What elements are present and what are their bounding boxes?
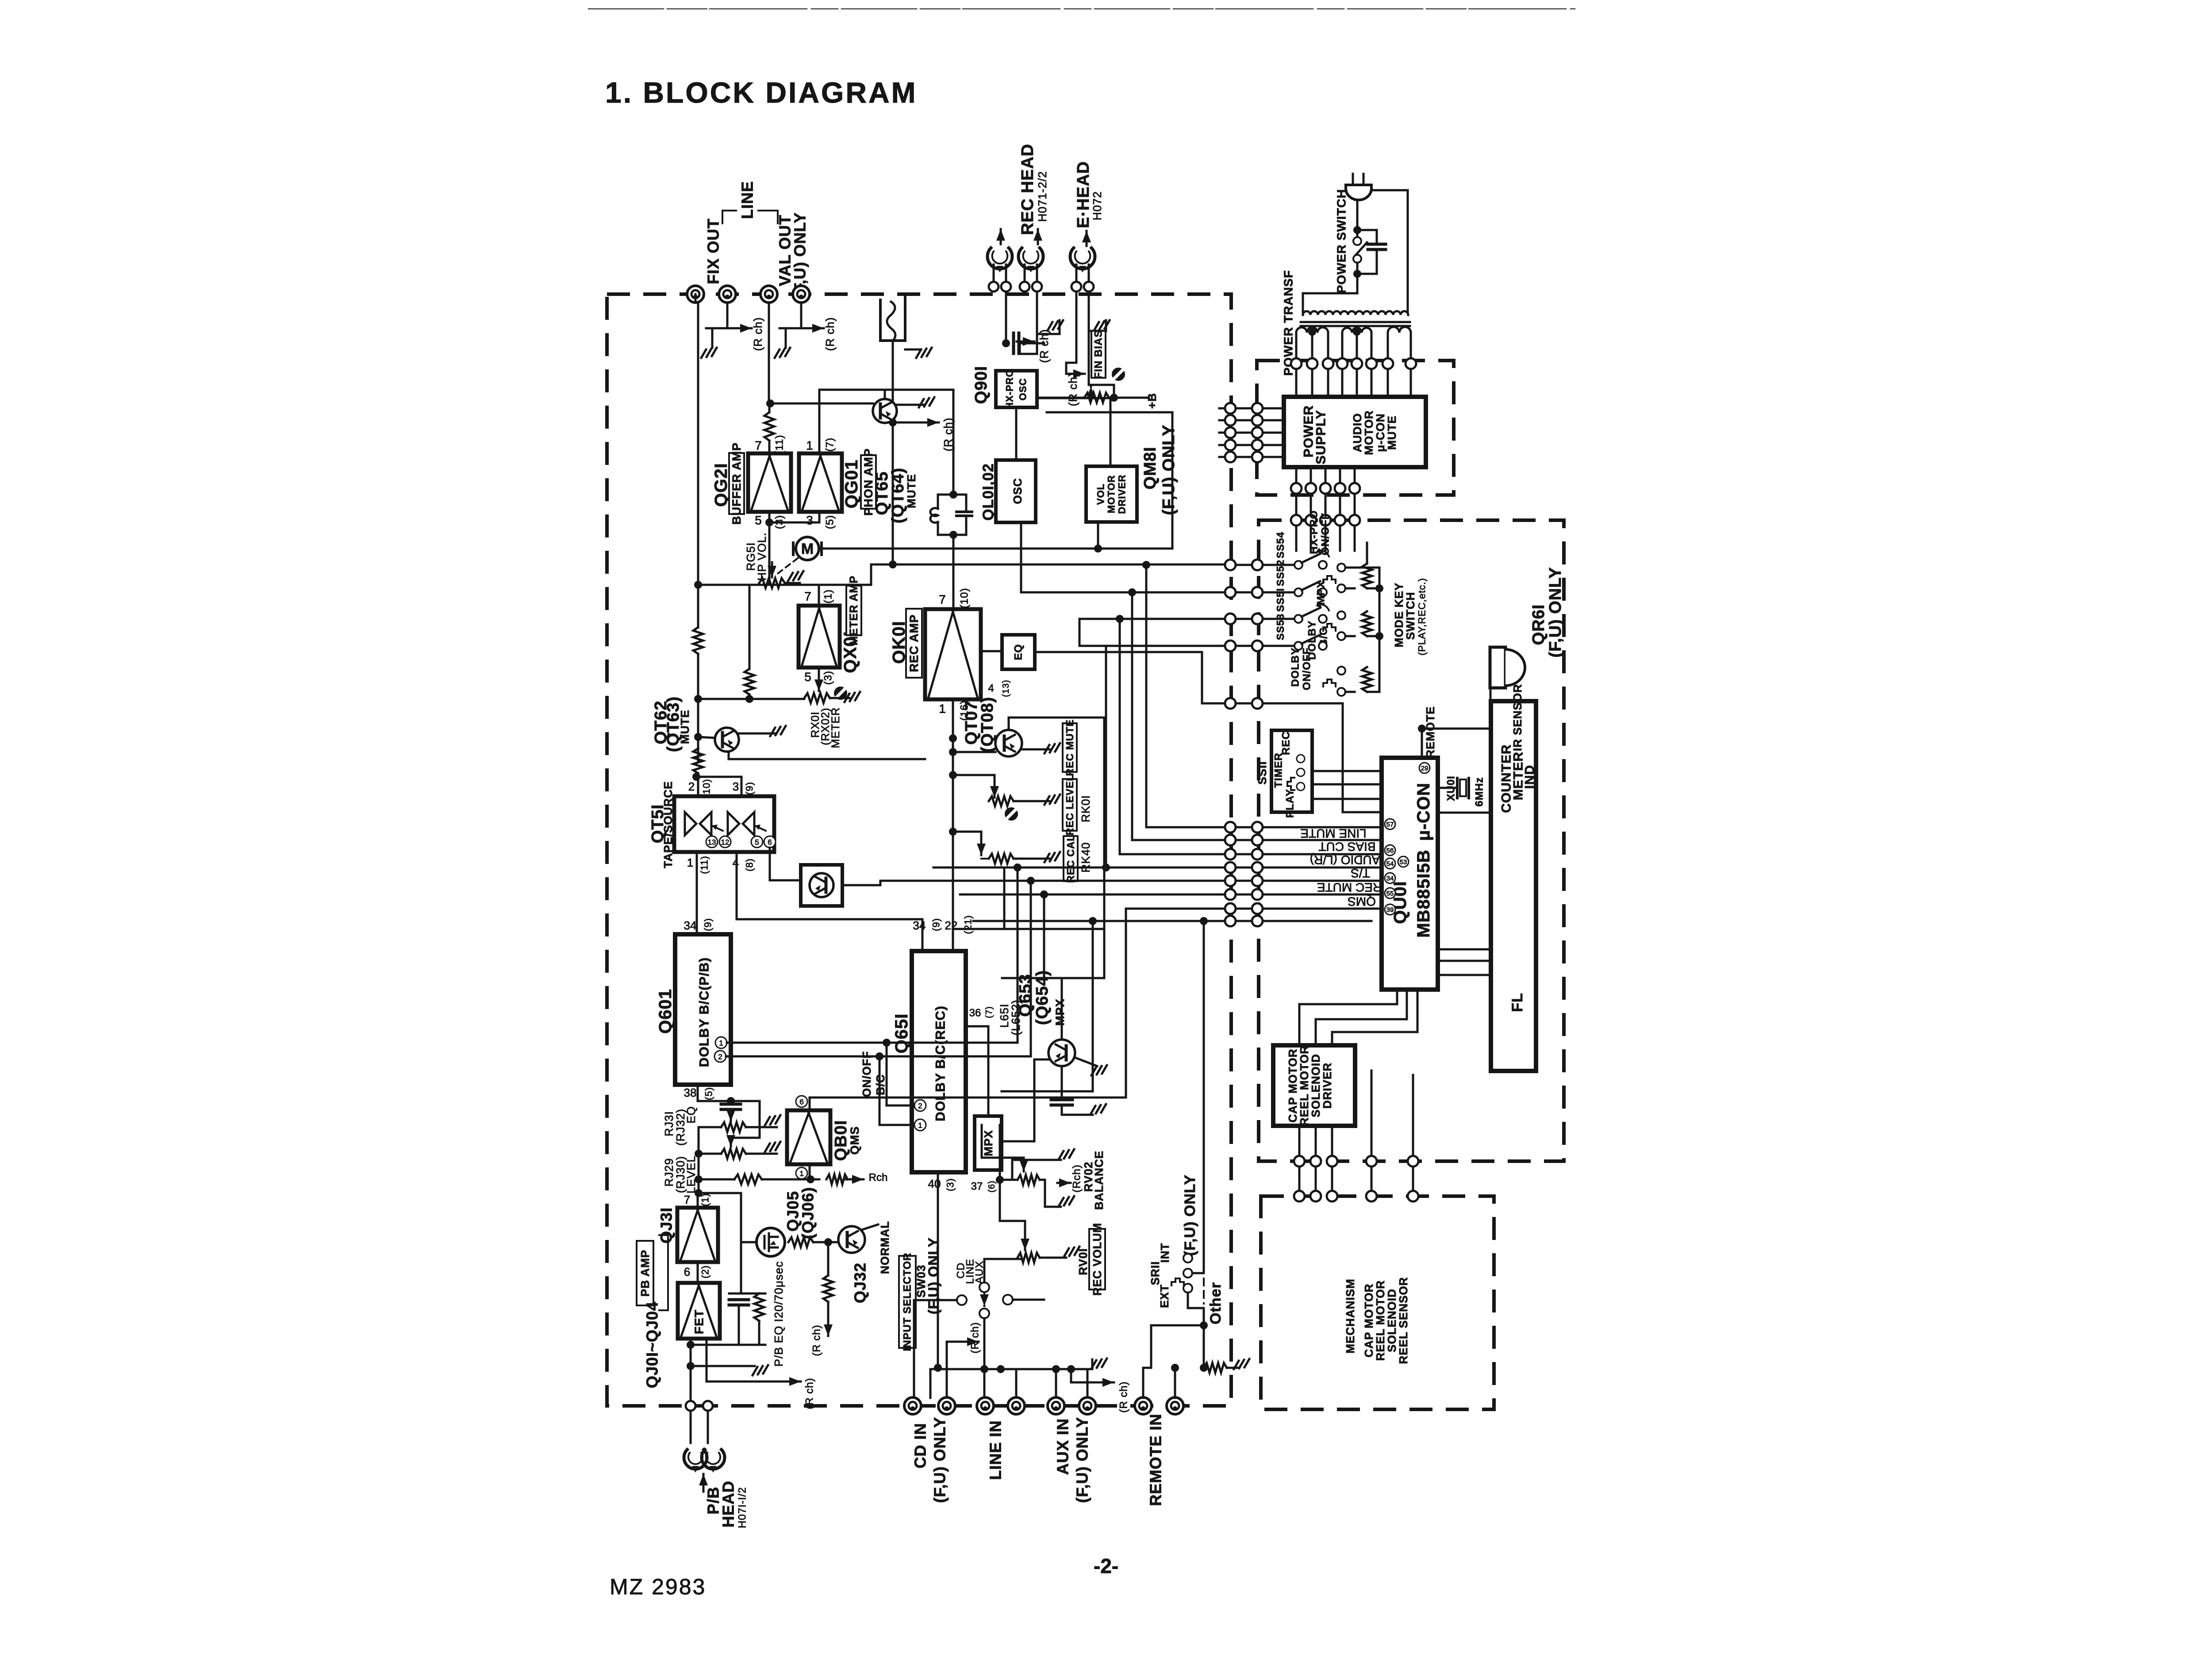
circled pins 13 12 5 6	[706, 836, 718, 848]
svg-text:1: 1	[939, 702, 946, 716]
svg-text:T/S: T/S	[1351, 867, 1370, 880]
wire QU01 to FL 1	[1438, 812, 1491, 814]
svg-text:(3): (3)	[945, 1178, 956, 1191]
wire SR11 remote riser	[1192, 1272, 1204, 1274]
ac cord	[1352, 174, 1354, 185]
svg-text:REMOTE IN: REMOTE IN	[1147, 1413, 1165, 1506]
wire ir sensor to remote	[1422, 688, 1490, 729]
control board dashed outline	[1259, 520, 1564, 1161]
pin 6 QB01	[796, 1096, 807, 1107]
svg-text:OSC: OSC	[1018, 378, 1029, 401]
svg-text:MPX: MPX	[1315, 580, 1327, 605]
wire Q651 pin37	[966, 1146, 988, 1170]
ir sensor QR61	[1490, 647, 1505, 688]
op-amp FET box	[678, 1283, 720, 1339]
transformer primary	[1303, 293, 1357, 312]
pot RX01 meter	[804, 693, 830, 703]
timer block SS11	[1271, 730, 1312, 812]
svg-text:LEVEL: LEVEL	[684, 1155, 698, 1193]
svg-text:REC CAL: REC CAL	[1065, 834, 1076, 883]
timer wires to QU01	[1313, 770, 1382, 772]
svg-text:(7): (7)	[984, 1006, 994, 1018]
wire QT51 pin1 to Q601	[696, 852, 698, 934]
svg-text:7: 7	[939, 593, 946, 606]
svg-text:MPX: MPX	[1053, 998, 1067, 1026]
driver outputs	[1298, 1126, 1301, 1156]
svg-text:34: 34	[1386, 875, 1394, 883]
svg-text:XU0I: XU0I	[1445, 775, 1457, 801]
pin circle 1 Q601	[715, 1037, 727, 1048]
ground RX01	[830, 697, 849, 699]
svg-text:TIMER: TIMER	[1273, 752, 1285, 788]
jack CD IN R	[938, 1397, 955, 1414]
box EQ	[981, 650, 1002, 652]
jack FIX OUT R	[719, 286, 736, 303]
svg-text:(F,U) ONLY: (F,U) ONLY	[1073, 1417, 1091, 1503]
ground VAL OUT R	[775, 348, 790, 358]
jack PB head terminals	[686, 1401, 695, 1411]
screw fin bias	[1112, 368, 1125, 381]
jack REMOTE IN 1	[1135, 1397, 1152, 1414]
svg-text:HX-PRO: HX-PRO	[1004, 369, 1015, 410]
svg-text:FIX OUT: FIX OUT	[704, 219, 722, 284]
resistor QJ05-QJ32	[788, 1237, 813, 1247]
svg-text:1: 1	[799, 1170, 803, 1178]
wire Q901 right to vol driver top	[1037, 398, 1110, 466]
svg-text:Rch: Rch	[869, 1172, 888, 1184]
svg-text:QG2I: QG2I	[711, 463, 731, 507]
svg-text:Q65I: Q65I	[892, 1013, 911, 1054]
svg-text:H071-2/2: H071-2/2	[1036, 171, 1049, 222]
wire QG21/QG01 outputs join	[768, 512, 771, 522]
Rch arrow aux in	[1071, 1369, 1097, 1382]
box VOL MOTOR DRIVER	[1086, 466, 1137, 522]
box Q901 HX-PRO OSC	[996, 371, 1037, 407]
wire balance feed	[982, 1125, 1024, 1158]
jack LINE IN R	[1008, 1397, 1025, 1414]
svg-text:(F,U) ONLY: (F,U) ONLY	[1546, 567, 1565, 658]
svg-text:DOLBY B/C(REC): DOLBY B/C(REC)	[933, 1005, 948, 1121]
svg-text:QJ0I~QJ04: QJ0I~QJ04	[643, 1301, 661, 1388]
svg-text:REC MUTE: REC MUTE	[1317, 881, 1382, 894]
svg-text:3: 3	[806, 514, 813, 527]
resistor rail upper	[693, 627, 703, 654]
svg-text:(F,U) ONLY: (F,U) ONLY	[1160, 425, 1178, 515]
wires to mech pads	[1371, 916, 1372, 921]
op-amp QJ31	[677, 1208, 718, 1262]
svg-text:LINE: LINE	[738, 181, 757, 219]
selector wires to jacks	[914, 1300, 957, 1398]
svg-text:12: 12	[721, 838, 730, 847]
svg-text:SUPPLY: SUPPLY	[1314, 410, 1329, 464]
svg-text:(11): (11)	[699, 856, 710, 874]
wire bias cut line	[1202, 702, 1225, 705]
Rch arrow erase head	[1066, 363, 1076, 374]
Rch arrow RV02	[1057, 1182, 1071, 1184]
wire Q601 pin38	[698, 1085, 760, 1143]
transistor QJ32	[838, 1226, 865, 1253]
svg-text:(5): (5)	[703, 1087, 714, 1100]
svg-text:2: 2	[688, 780, 695, 793]
svg-text:REC HEAD: REC HEAD	[1018, 144, 1037, 235]
wire level rail resistor to Rch	[734, 1174, 762, 1184]
badge METER AMP	[846, 586, 861, 635]
svg-text:(5): (5)	[824, 515, 836, 529]
wire QT65 base to val-out line	[770, 403, 873, 405]
badge INPUT SELECTOR	[899, 1256, 916, 1348]
ground QT62	[739, 733, 775, 735]
coupler transistor box	[801, 865, 842, 906]
svg-text:Q601: Q601	[656, 989, 675, 1034]
wire coupler output right	[842, 881, 907, 885]
svg-text:REC: REC	[1280, 731, 1292, 755]
wires QU01 bottom to driver	[1299, 990, 1397, 1045]
ground RK01	[1014, 800, 1049, 802]
signal row pads	[1225, 822, 1236, 833]
svg-text:57: 57	[1386, 821, 1394, 829]
svg-text:AUX IN: AUX IN	[1054, 1418, 1072, 1475]
wire rec head L down to oscillator coupling	[1005, 292, 1007, 343]
svg-text:13: 13	[708, 838, 716, 847]
capacitor Q653	[1061, 1066, 1063, 1097]
svg-text:SWITCH: SWITCH	[1404, 592, 1417, 640]
svg-text:PLAY: PLAY	[1284, 789, 1296, 818]
wires pads to QU01	[1263, 826, 1382, 829]
transformer secondaries	[1296, 327, 1328, 333]
Rch arrow FET	[707, 1366, 783, 1382]
ground RJ29	[746, 1153, 777, 1155]
pot RJ31 EQ	[721, 1122, 746, 1132]
svg-text:DRIVER: DRIVER	[1117, 474, 1128, 514]
op-amp QB01	[787, 1110, 830, 1164]
head terminals on board edge	[989, 282, 998, 292]
wire rv01 down	[937, 1172, 939, 1368]
svg-text:BIAS CUT: BIAS CUT	[1318, 840, 1375, 854]
jack AUX IN L	[1048, 1397, 1064, 1414]
power row stubs	[1219, 407, 1225, 410]
power block left pads	[1225, 403, 1236, 414]
svg-text:Other: Other	[1207, 1282, 1224, 1324]
svg-text:(9): (9)	[703, 918, 714, 931]
ground RJ31	[746, 1126, 777, 1128]
display block FL	[1491, 701, 1536, 1071]
signal row QMS	[1126, 909, 1225, 1098]
jack AUX IN R	[1079, 1397, 1096, 1414]
ground RV01	[1040, 1257, 1066, 1259]
svg-text:(F,U) ONLY: (F,U) ONLY	[926, 1237, 941, 1314]
svg-text:(7): (7)	[824, 437, 836, 452]
svg-text:56: 56	[1386, 847, 1394, 855]
pin circle 2 Q601	[714, 1051, 726, 1062]
svg-text:H072: H072	[1091, 191, 1104, 220]
svg-text:ON/OFF: ON/OFF	[1320, 513, 1332, 556]
signal row bias	[1120, 853, 1225, 856]
svg-text:IND: IND	[1523, 765, 1537, 789]
wire Q901 bias out to +B	[1037, 397, 1084, 399]
svg-text:FIN BIAS: FIN BIAS	[1093, 330, 1105, 379]
wire coupler to Q651 pin34 rail	[821, 906, 822, 919]
svg-text:EXT: EXT	[1158, 1284, 1171, 1308]
bowtie switch 2	[728, 812, 754, 835]
svg-text:MUTE: MUTE	[905, 474, 918, 508]
wire Q601 pin1 to Q651	[727, 1043, 912, 1105]
svg-text:M: M	[801, 541, 814, 557]
pot RV01 REC VOLUM	[1018, 1253, 1040, 1263]
pot RG51	[759, 578, 785, 588]
transistor Q653 (Q654) MPX	[1048, 1040, 1075, 1066]
secondary leads	[1295, 333, 1298, 359]
svg-text:FET: FET	[692, 1309, 706, 1334]
badge REC MUTE	[1063, 723, 1077, 772]
rec head L symbol	[987, 248, 1012, 272]
svg-text:QJ32: QJ32	[851, 1263, 869, 1303]
power supply block	[1284, 397, 1426, 467]
signal row 8	[1092, 921, 1094, 1091]
svg-text:SSII: SSII	[1256, 761, 1269, 784]
wire fuse to arrow	[892, 341, 894, 564]
svg-text:(QJ06): (QJ06)	[799, 1187, 817, 1239]
svg-text:5: 5	[755, 514, 762, 527]
svg-text:DOLBY B/C(P/B): DOLBY B/C(P/B)	[697, 957, 712, 1067]
svg-text:VOL: VOL	[1095, 484, 1106, 505]
op-amp QK01 REC AMP	[925, 609, 981, 699]
signal row rec mute	[1043, 894, 1045, 978]
dashed link motor to pot	[777, 558, 798, 574]
svg-text:(R ch): (R ch)	[751, 317, 764, 351]
resistor below QJ32	[827, 1242, 829, 1275]
ground fuse	[919, 349, 920, 359]
svg-text:LINE IN: LINE IN	[987, 1420, 1005, 1480]
svg-text:μ-CON: μ-CON	[1414, 783, 1433, 841]
svg-text:6: 6	[768, 838, 772, 847]
svg-text:HX-PRO: HX-PRO	[1308, 510, 1320, 554]
jack REMOTE IN 2	[1167, 1397, 1183, 1414]
svg-text:IR SENSOR: IR SENSOR	[1511, 684, 1524, 751]
wire meter line from rail	[698, 698, 804, 700]
svg-text:5: 5	[755, 838, 759, 847]
selector wire to rec volume	[984, 1259, 1021, 1282]
ground QT07	[1021, 748, 1049, 751]
mode key buttons	[1337, 564, 1345, 572]
driver block CAP MOTOR	[1273, 1045, 1355, 1126]
wire rec level feed	[953, 775, 995, 792]
svg-text:54: 54	[1386, 860, 1394, 868]
jack LINE IN L	[977, 1397, 994, 1414]
jack FIX OUT L	[687, 286, 704, 303]
svg-text:(1): (1)	[700, 1193, 711, 1206]
svg-text:(21): (21)	[963, 915, 974, 934]
svg-text:SRII: SRII	[1148, 1261, 1162, 1286]
wire bias row into control board	[1263, 703, 1382, 812]
mechanism dashed outline	[1261, 1196, 1494, 1409]
signal row line mute	[1146, 826, 1225, 829]
wire QX01 output to pot	[818, 668, 820, 691]
wire QT51 pin3 feed	[692, 773, 700, 781]
svg-text:QR6I: QR6I	[1529, 604, 1548, 645]
switch SS54 HX-PRO	[1263, 564, 1294, 566]
wire osc down to mpx row	[1020, 522, 1022, 592]
svg-text:36: 36	[969, 1007, 981, 1019]
svg-text:EQ: EQ	[1013, 644, 1025, 660]
switch block QT51	[674, 796, 774, 852]
svg-text:ON/OFF: ON/OFF	[1301, 648, 1313, 691]
svg-text:1: 1	[687, 856, 693, 869]
pin circles QU01	[1385, 819, 1395, 829]
bracket RV02 grounds	[1012, 1160, 1061, 1180]
svg-text:(R ch): (R ch)	[804, 1378, 816, 1409]
switch row pads	[1225, 560, 1236, 570]
transformer core	[1301, 321, 1410, 323]
wire QT07 base	[953, 751, 995, 753]
svg-text:(F,U) ONLY: (F,U) ONLY	[1182, 1174, 1198, 1256]
signal row audio	[1017, 867, 1019, 1043]
selector contacts	[957, 1295, 967, 1305]
svg-text:REC VOLUM: REC VOLUM	[1091, 1223, 1104, 1296]
capacitor across switch	[1357, 230, 1377, 244]
cap and resistor PB eq	[740, 1193, 742, 1293]
badge PB AMP	[637, 1241, 653, 1305]
svg-text:55: 55	[1386, 890, 1394, 898]
svg-text:(R ch): (R ch)	[811, 1324, 823, 1356]
svg-text:EQ: EQ	[684, 1106, 698, 1124]
ground RK40	[1014, 858, 1049, 860]
osc box QL01	[996, 460, 1036, 522]
wire rail down from pot area	[698, 1127, 700, 1193]
ground RG51	[785, 582, 800, 584]
jack VAL OUT R	[793, 286, 810, 303]
svg-text:NORMAL: NORMAL	[878, 1221, 891, 1274]
svg-text:2: 2	[718, 1053, 722, 1061]
svg-text:REC AMP: REC AMP	[907, 614, 921, 672]
svg-text:(1): (1)	[822, 589, 834, 603]
svg-text:PB AMP: PB AMP	[638, 1250, 652, 1297]
resistor rail lower	[693, 748, 703, 773]
svg-text:1: 1	[918, 1121, 922, 1130]
svg-text:1: 1	[719, 1039, 723, 1048]
wire plug right side	[1371, 190, 1408, 312]
wire QG01 pin1 up	[819, 390, 885, 453]
svg-text:(R ch): (R ch)	[823, 317, 837, 351]
switch POWER	[1353, 237, 1361, 245]
power block bottom pads	[1295, 467, 1298, 483]
svg-text:(9): (9)	[931, 918, 942, 931]
svg-text:5: 5	[804, 670, 811, 684]
svg-text:METER AMP: METER AMP	[848, 576, 860, 645]
wire plug to switch	[1356, 200, 1359, 238]
svg-text:7: 7	[684, 1193, 690, 1206]
dolby block Q651	[912, 951, 966, 1172]
ground FET output	[691, 1365, 755, 1367]
pin 29 QU01	[1419, 763, 1430, 773]
svg-text:BALANCE: BALANCE	[1092, 1151, 1106, 1210]
bowtie switch 1	[685, 812, 711, 835]
svg-text:4: 4	[988, 683, 994, 695]
svg-text:SS54: SS54	[1275, 532, 1286, 558]
wire fix out rail down	[695, 294, 697, 303]
svg-text:(2): (2)	[700, 1265, 711, 1278]
wire SR11 bottom net	[1188, 1293, 1204, 1368]
wire VAL OUT R to ground	[801, 303, 813, 328]
badge REC LEVEL	[1063, 779, 1077, 831]
svg-text:6: 6	[799, 1098, 803, 1106]
Rch arrow line in	[947, 1342, 964, 1369]
svg-text:OSC: OSC	[1011, 478, 1024, 504]
op-amp QX01	[799, 606, 840, 668]
svg-text:(R ch): (R ch)	[1118, 1381, 1130, 1412]
resistor to meter line	[749, 585, 751, 669]
svg-text:MPX: MPX	[982, 1130, 995, 1156]
svg-text:(13): (13)	[1001, 679, 1011, 697]
head terminal wires	[993, 265, 995, 282]
svg-text:34: 34	[684, 919, 697, 932]
wire Q601 pin2 to Q651	[726, 1056, 912, 1125]
bracket PB AMP	[659, 1235, 668, 1310]
svg-text:QM8I: QM8I	[1141, 447, 1160, 490]
svg-text:CD IN: CD IN	[911, 1423, 929, 1469]
mode key bus	[1345, 568, 1379, 692]
motor M	[792, 543, 795, 555]
badge REC CAL	[1064, 836, 1078, 881]
svg-text:QG01: QG01	[842, 460, 861, 509]
svg-text:HEAD: HEAD	[719, 1481, 737, 1527]
svg-text:QU0I: QU0I	[1390, 881, 1410, 924]
transistor QT65	[873, 399, 897, 423]
svg-text:REC LEVEL: REC LEVEL	[1064, 774, 1075, 835]
svg-text:QJ3I: QJ3I	[657, 1207, 676, 1243]
svg-text:7: 7	[804, 590, 811, 603]
wire rec volume feed	[1000, 1220, 1025, 1222]
ground rec head	[1059, 320, 1061, 334]
svg-text:SS5I: SS5I	[1275, 588, 1286, 612]
wire QB01 pin6 to QMS line	[810, 1098, 1126, 1110]
resistor remote gnd	[1204, 1363, 1227, 1373]
wire QT51 pin4 down	[736, 852, 738, 919]
badge FIN BIAS	[1091, 331, 1106, 378]
svg-text:MUTE: MUTE	[1385, 415, 1398, 450]
svg-text:E·HEAD: E·HEAD	[1074, 161, 1093, 228]
svg-text:QB0I: QB0I	[832, 1120, 850, 1161]
svg-text:REMOTE: REMOTE	[1424, 706, 1437, 758]
wires FET to PB head	[690, 1339, 692, 1401]
svg-text:6MHz: 6MHz	[1474, 777, 1486, 807]
svg-text:(PLAY,REC,etc.): (PLAY,REC,etc.)	[1417, 578, 1428, 656]
svg-text:39: 39	[1386, 906, 1394, 914]
svg-text:POWER SWITCH: POWER SWITCH	[1335, 189, 1348, 293]
dashed other link	[1203, 1278, 1205, 1304]
wire QK01 pin1 down to Q651 pin22	[952, 699, 954, 951]
ac plug	[1346, 185, 1371, 200]
fuse lamp symbol	[880, 297, 905, 341]
svg-text:1. BLOCK DIAGRAM: 1. BLOCK DIAGRAM	[605, 76, 918, 109]
op-amp QG01	[799, 453, 842, 512]
svg-text:38: 38	[684, 1086, 697, 1099]
wire erase head down	[1075, 292, 1078, 363]
badge PHON AMP	[861, 455, 876, 509]
svg-text:LINE MUTE: LINE MUTE	[1300, 827, 1366, 840]
svg-text:REEL SENSOR: REEL SENSOR	[1397, 1277, 1410, 1364]
svg-text:MECHANISM: MECHANISM	[1344, 1278, 1357, 1353]
svg-text:1: 1	[806, 439, 813, 453]
svg-text:P/B EQ I20/70μsec: P/B EQ I20/70μsec	[772, 1261, 785, 1367]
svg-text:MOTOR: MOTOR	[1106, 475, 1117, 513]
resistor above QG21	[764, 412, 774, 441]
svg-text:(QT08): (QT08)	[978, 697, 997, 752]
badge BUFFER AMP	[729, 453, 744, 514]
transistor QT07 (QT08)	[995, 730, 1022, 756]
micro block QU01	[1382, 758, 1438, 990]
svg-text:(Rch): (Rch)	[1071, 1164, 1083, 1193]
switch SS51 DOLBY B/C	[1263, 618, 1294, 620]
